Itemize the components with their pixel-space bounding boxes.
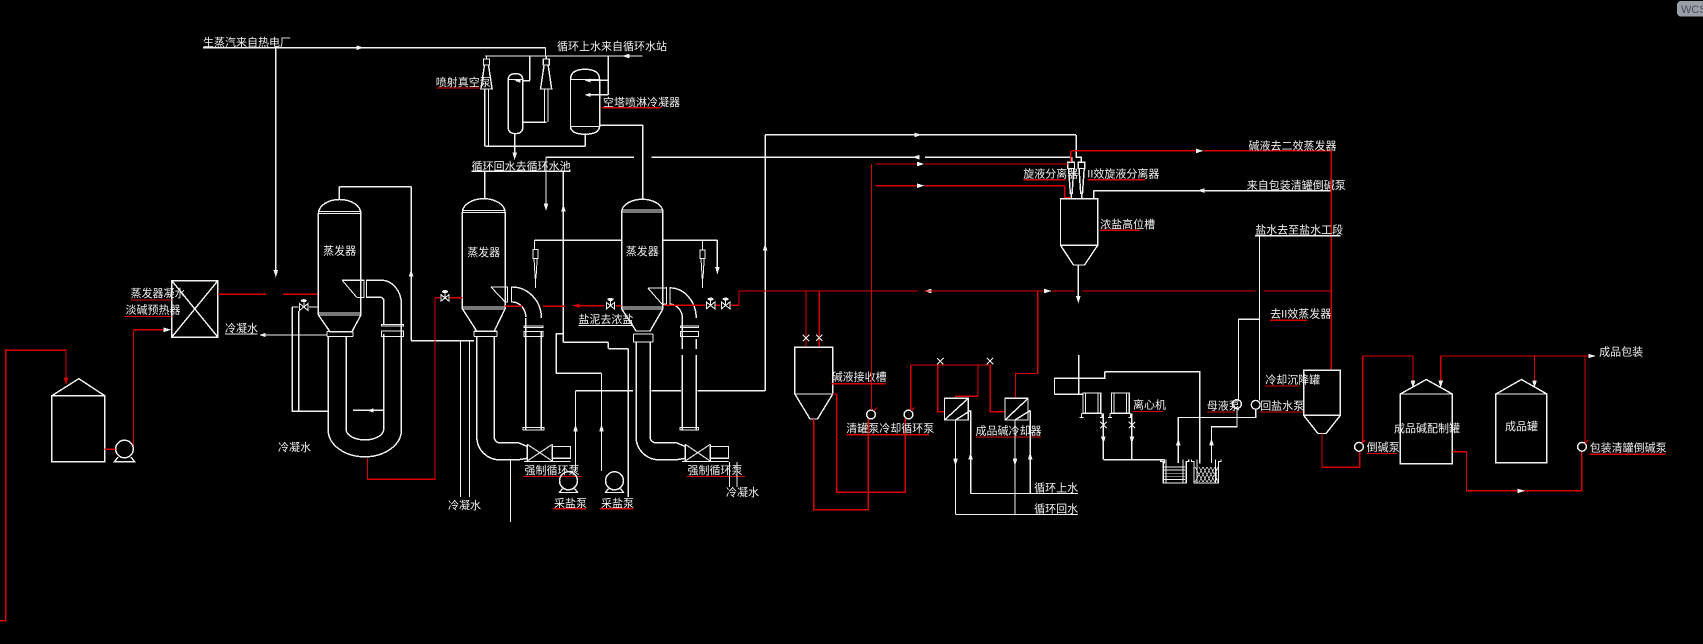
svg-text:冷凝水: 冷凝水 [278,440,311,454]
svg-text:淡碱预热器: 淡碱预热器 [126,304,181,317]
svg-text:包装清罐倒碱泵: 包装清罐倒碱泵 [1590,442,1667,455]
svg-text:蒸发器: 蒸发器 [626,244,659,258]
svg-text:母液泵: 母液泵 [1207,399,1240,413]
svg-text:盐水去至盐水工段: 盐水去至盐水工段 [1255,222,1343,236]
svg-text:冷却沉降罐: 冷却沉降罐 [1265,372,1320,386]
svg-text:冷凝水: 冷凝水 [448,498,481,512]
svg-text:蒸发器凝水: 蒸发器凝水 [131,286,186,300]
svg-text:回盐水泵: 回盐水泵 [1260,400,1304,413]
svg-text:空塔喷淋冷凝器: 空塔喷淋冷凝器 [603,95,680,109]
svg-text:成品罐: 成品罐 [1505,420,1538,433]
svg-text:II效旋液分离器: II效旋液分离器 [1087,166,1159,180]
svg-text:冷凝水: 冷凝水 [726,485,759,499]
svg-text:采盐泵: 采盐泵 [554,497,587,510]
svg-text:碱液接收槽: 碱液接收槽 [832,370,887,384]
svg-text:采盐泵: 采盐泵 [601,497,634,510]
svg-text:生蒸汽来自热电厂: 生蒸汽来自热电厂 [203,35,291,49]
svg-text:循环上水来自循环水站: 循环上水来自循环水站 [557,39,667,53]
svg-text:碱液去二效蒸发器: 碱液去二效蒸发器 [1249,138,1337,152]
svg-text:成品碱冷却器: 成品碱冷却器 [976,425,1042,438]
svg-text:倒碱泵: 倒碱泵 [1367,441,1400,454]
svg-text:强制循环泵: 强制循环泵 [525,464,580,477]
svg-text:清罐泵冷却循环泵: 清罐泵冷却循环泵 [846,422,934,435]
svg-text:蒸发器: 蒸发器 [323,244,356,258]
svg-text:离心机: 离心机 [1133,398,1166,412]
svg-text:去II效蒸发器: 去II效蒸发器 [1270,307,1331,321]
svg-text:成品碱配制罐: 成品碱配制罐 [1394,422,1460,435]
svg-text:循环回水: 循环回水 [1034,503,1078,516]
svg-text:蒸发器: 蒸发器 [467,245,500,259]
svg-text:喷射真空泵: 喷射真空泵 [436,75,491,89]
svg-text:盐泥去浓盐: 盐泥去浓盐 [578,313,633,326]
svg-text:旋液分离器: 旋液分离器 [1023,166,1078,180]
svg-text:浓盐高位槽: 浓盐高位槽 [1100,217,1155,231]
svg-text:强制循环泵: 强制循环泵 [688,464,743,477]
svg-text:冷凝水: 冷凝水 [225,321,258,335]
svg-text:成品包装: 成品包装 [1599,345,1643,358]
svg-text:WCS: WCS [1681,4,1703,16]
svg-text:循环上水: 循环上水 [1034,482,1078,495]
